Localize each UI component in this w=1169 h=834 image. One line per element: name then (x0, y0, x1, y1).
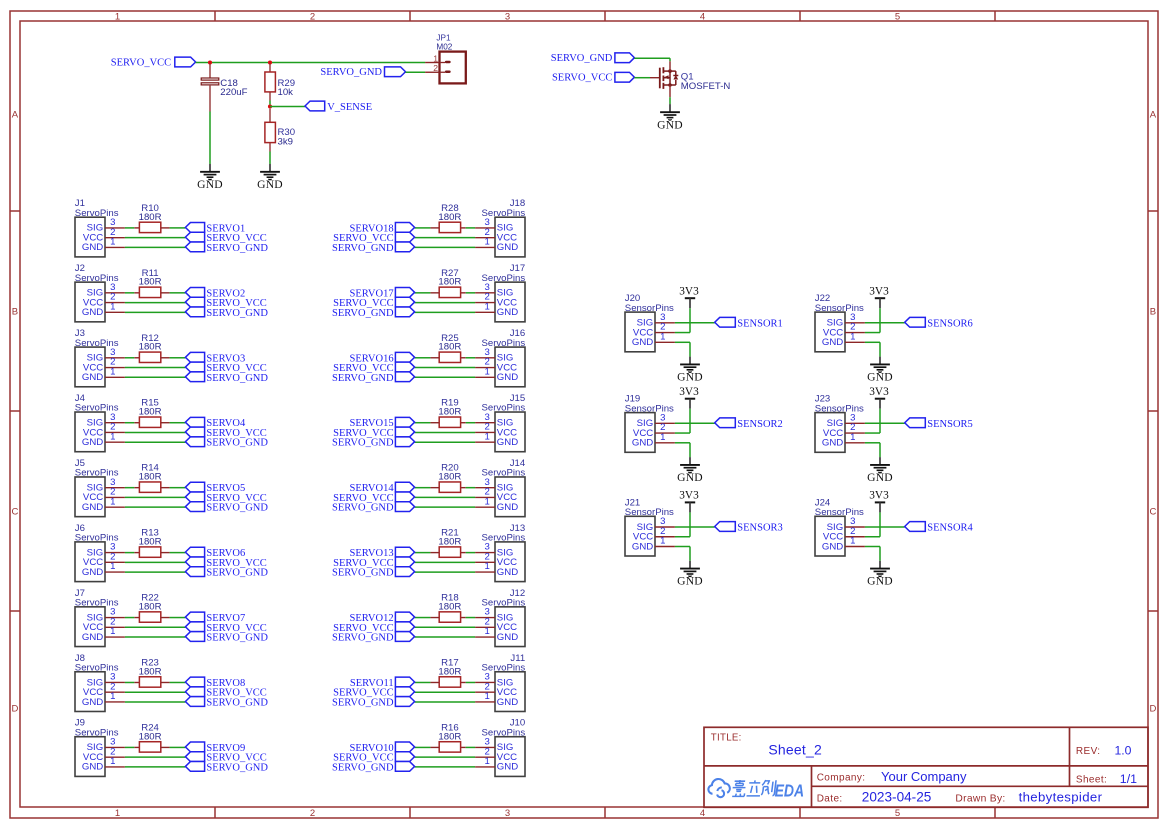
svg-text:1: 1 (110, 237, 115, 248)
pin 2 (105, 367, 125, 369)
net label SERVO_GND (185, 437, 268, 449)
ground (867, 364, 893, 383)
resistor R23 180R (134, 657, 169, 687)
pin 3 (105, 552, 125, 554)
pin 2 (475, 561, 495, 563)
svg-text:1: 1 (110, 496, 115, 507)
wire R16 to SERVO10 flag (415, 746, 431, 748)
wire J15 SIG to R19 (466, 422, 475, 424)
pin 1 (655, 341, 675, 343)
wire J22 SIG to SENSOR6 flag (865, 322, 905, 324)
net label SENSOR1 (715, 317, 783, 329)
resistor R22 180R (134, 593, 169, 623)
connector J17 ServoPins (475, 263, 525, 322)
svg-text:180R: 180R (438, 342, 461, 353)
net label SERVO_GND (185, 632, 268, 644)
connector J7 ServoPins (75, 588, 125, 647)
pin 2 (845, 536, 865, 538)
net label SERVO_VCC (333, 752, 414, 764)
net label V_SENSE (305, 101, 372, 113)
pin 1 (105, 636, 125, 638)
svg-text:GND: GND (632, 337, 653, 348)
svg-text:180R: 180R (139, 666, 162, 677)
wire J7 VCC (125, 626, 185, 628)
wire J8 GND (125, 701, 185, 703)
svg-text:SERVO_GND: SERVO_GND (551, 53, 613, 64)
wire SERVO_VCC bus (196, 62, 426, 64)
svg-text:GND: GND (497, 437, 518, 448)
svg-text:1: 1 (485, 237, 490, 248)
power 3V3 (869, 386, 889, 399)
wire R10 to SERVO1 flag (170, 227, 186, 229)
net label SERVO14 (350, 482, 415, 494)
net label SERVO5 (185, 482, 245, 494)
wire J8 VCC (125, 691, 185, 693)
svg-text:Sheet_2: Sheet_2 (768, 742, 822, 758)
wire J5 GND (125, 506, 185, 508)
svg-text:GND: GND (497, 697, 518, 708)
pin 1 (105, 766, 125, 768)
wire R24 to SERVO9 flag (170, 746, 186, 748)
svg-text:SERVO_GND: SERVO_GND (332, 243, 394, 254)
svg-text:1: 1 (485, 691, 490, 702)
wire R15 to SERVO4 flag (170, 422, 186, 424)
net label SERVO4 (185, 417, 246, 429)
pin 1 (655, 442, 675, 444)
svg-text:180R: 180R (139, 407, 162, 418)
pin 1 (475, 441, 495, 443)
net label SERVO7 (185, 612, 245, 624)
title block (704, 727, 1148, 807)
wire J13 SIG to R21 (466, 552, 475, 554)
svg-text:SERVO_GND: SERVO_GND (206, 308, 268, 319)
pin 3 (475, 681, 495, 683)
wire J17 SIG to R27 (466, 292, 475, 294)
svg-text:SENSOR3: SENSOR3 (737, 523, 783, 534)
svg-text:SERVO_GND: SERVO_GND (206, 373, 268, 384)
svg-text:SENSOR2: SENSOR2 (737, 419, 783, 430)
wire J10 VCC (415, 756, 476, 758)
net label SERVO10 (350, 742, 415, 754)
svg-text:1: 1 (485, 756, 490, 767)
svg-text:MOSFET-N: MOSFET-N (681, 81, 731, 92)
power 3V3 (869, 286, 889, 299)
pin 3 (105, 422, 125, 424)
wire J2 GND (125, 311, 185, 313)
net label SERVO_GND (Q1) (551, 53, 635, 64)
svg-text:4: 4 (700, 11, 705, 22)
connector J4 ServoPins (75, 393, 125, 452)
svg-text:1: 1 (850, 331, 855, 342)
svg-text:GND: GND (677, 471, 703, 484)
connector J12 ServoPins (475, 588, 525, 647)
svg-text:SERVO_GND: SERVO_GND (206, 697, 268, 708)
wire J3 GND (125, 376, 185, 378)
wire R14 to SERVO5 flag (170, 487, 186, 489)
wire C18 to ground (209, 112, 211, 165)
wire J18 VCC (415, 237, 476, 239)
resistor R13 180R (134, 528, 169, 558)
net label SERVO_GND (185, 502, 268, 514)
wire J15 GND (415, 441, 476, 443)
wire R19 to SERVO15 flag (415, 422, 431, 424)
svg-text:SERVO_GND: SERVO_GND (332, 438, 394, 449)
wire J21 GND to ground (675, 547, 690, 569)
wire R25 to SERVO16 flag (415, 357, 431, 359)
svg-text:GND: GND (497, 242, 518, 253)
resistor R20 180R (430, 463, 465, 493)
ground (677, 364, 703, 383)
net label SERVO_GND (to JP1) (320, 67, 405, 78)
wire J3 SIG to R12 (125, 357, 134, 359)
svg-text:180R: 180R (139, 472, 162, 483)
wire J8 SIG to R23 (125, 681, 134, 683)
wire J14 SIG to R20 (466, 487, 475, 489)
net label SENSOR6 (905, 317, 973, 329)
wire 3V3 to J21 VCC (675, 512, 690, 536)
svg-text:GND: GND (82, 567, 103, 578)
resistor R24 180R (134, 722, 169, 752)
power 3V3 (869, 490, 889, 503)
wire J20 GND to ground (675, 342, 690, 364)
svg-text:GND: GND (657, 118, 683, 131)
connector J19 SensorPins (625, 394, 675, 453)
svg-text:SERVO_GND: SERVO_GND (332, 568, 394, 579)
svg-text:10k: 10k (278, 87, 294, 98)
svg-text:Date:: Date: (817, 794, 843, 805)
pin 1 (475, 506, 495, 508)
pin 2 (475, 756, 495, 758)
pin 3 (105, 292, 125, 294)
pin 2 (655, 332, 675, 334)
net label SENSOR4 (905, 522, 974, 534)
svg-text:SERVO_GND: SERVO_GND (320, 67, 382, 78)
svg-text:GND: GND (82, 307, 103, 318)
svg-text:TITLE:: TITLE: (711, 733, 742, 744)
svg-text:1.0: 1.0 (1115, 743, 1132, 757)
svg-text:180R: 180R (438, 472, 461, 483)
pin 3 (475, 292, 495, 294)
svg-text:SERVO_GND: SERVO_GND (206, 243, 268, 254)
svg-text:D: D (1149, 704, 1156, 715)
wire J16 VCC (415, 367, 476, 369)
svg-text:1: 1 (850, 536, 855, 547)
svg-text:SERVO_GND: SERVO_GND (206, 633, 268, 644)
svg-text:180R: 180R (139, 342, 162, 353)
pin 1 (105, 246, 125, 248)
pin 3 (105, 357, 125, 359)
svg-text:Company:: Company: (817, 773, 866, 784)
svg-text:GND: GND (497, 372, 518, 383)
connector J1 ServoPins (75, 198, 125, 257)
resistor R10 180R (134, 203, 169, 233)
wire J19 GND to ground (675, 443, 690, 465)
wire R23 to SERVO8 flag (170, 681, 186, 683)
svg-text:180R: 180R (438, 601, 461, 612)
wire J5 VCC (125, 496, 185, 498)
svg-text:1: 1 (485, 496, 490, 507)
pin 2 (475, 691, 495, 693)
svg-text:180R: 180R (139, 601, 162, 612)
resistor R21 180R (430, 528, 465, 558)
net label SERVO_VCC (185, 492, 266, 504)
wire J17 GND (415, 311, 476, 313)
wire J23 GND to ground (865, 443, 880, 465)
net label SERVO_VCC (333, 557, 414, 569)
wire J15 VCC (415, 431, 476, 433)
svg-text:1: 1 (485, 366, 490, 377)
net label SENSOR2 (715, 418, 783, 430)
connector J20 SensorPins (625, 293, 675, 352)
svg-text:C: C (11, 507, 18, 518)
net label SERVO_VCC (333, 232, 414, 244)
svg-text:3V3: 3V3 (679, 386, 699, 398)
net label SERVO_VCC (185, 622, 266, 634)
svg-text:REV:: REV: (1076, 746, 1101, 757)
pin 2 (845, 432, 865, 434)
pin 3 (845, 526, 865, 528)
ground (657, 112, 683, 131)
svg-text:3V3: 3V3 (869, 286, 889, 298)
svg-text:1: 1 (485, 626, 490, 637)
svg-text:Drawn By:: Drawn By: (955, 793, 1005, 804)
pin 1 (105, 571, 125, 573)
wire J18 SIG to R28 (466, 227, 475, 229)
net label SERVO_VCC (185, 427, 266, 439)
wire J9 GND (125, 766, 185, 768)
net label SERVO_GND (185, 567, 268, 579)
wire J10 GND (415, 766, 476, 768)
connector J8 ServoPins (75, 653, 125, 712)
transistor Q1 MOSFET-N (650, 61, 730, 97)
pin 1 (475, 636, 495, 638)
pin 1 (105, 311, 125, 313)
connector J2 ServoPins (75, 263, 125, 322)
wire J1 SIG to R10 (125, 227, 134, 229)
svg-text:1: 1 (110, 691, 115, 702)
wire J6 SIG to R13 (125, 552, 134, 554)
pin 2 (105, 237, 125, 239)
svg-text:GND: GND (497, 762, 518, 773)
wire 3V3 to J20 VCC (675, 308, 690, 332)
wire J9 SIG to R24 (125, 746, 134, 748)
wire J2 VCC (125, 302, 185, 304)
svg-text:SERVO_VCC: SERVO_VCC (552, 73, 612, 84)
connector J11 ServoPins (475, 653, 525, 712)
ground (677, 569, 703, 588)
wire R29 to V_SENSE node (269, 101, 271, 105)
wire J3 VCC (125, 367, 185, 369)
svg-text:3k9: 3k9 (278, 136, 293, 147)
resistor R18 180R (430, 593, 465, 623)
svg-text:2: 2 (310, 808, 315, 819)
wire J4 VCC (125, 431, 185, 433)
power 3V3 (679, 286, 699, 299)
wire R30 to ground (269, 152, 271, 165)
net label SERVO15 (350, 417, 415, 429)
wire J1 GND (125, 246, 185, 248)
svg-text:180R: 180R (139, 731, 162, 742)
svg-text:1: 1 (433, 53, 438, 63)
net label SERVO_GND (185, 372, 268, 384)
wire J4 SIG to R15 (125, 422, 134, 424)
net label SERVO_VCC (333, 687, 414, 699)
net label SERVO_VCC (333, 427, 414, 439)
svg-text:3V3: 3V3 (869, 386, 889, 398)
wire R13 to SERVO6 flag (170, 552, 186, 554)
pin 2 (105, 626, 125, 628)
pin 3 (655, 422, 675, 424)
wire R17 to SERVO11 flag (415, 681, 431, 683)
svg-text:Your Company: Your Company (881, 769, 967, 784)
wire R12 to SERVO3 flag (170, 357, 186, 359)
net label SERVO_VCC (333, 622, 414, 634)
wire J12 GND (415, 636, 476, 638)
wire R20 to SERVO14 flag (415, 487, 431, 489)
svg-text:180R: 180R (438, 537, 461, 548)
connector J23 SensorPins (815, 394, 865, 453)
net label SERVO_VCC (Q1 gate) (552, 72, 634, 83)
svg-text:180R: 180R (438, 666, 461, 677)
resistor R16 180R (430, 722, 465, 752)
net label SERVO13 (350, 547, 415, 559)
wire J11 SIG to R17 (466, 681, 475, 683)
net label SERVO16 (350, 352, 415, 364)
svg-text:3: 3 (505, 11, 510, 22)
pin 3 (655, 526, 675, 528)
net label SERVO_GND (332, 567, 415, 579)
resistor R28 180R (430, 203, 465, 233)
svg-text:GND: GND (497, 502, 518, 513)
svg-text:SENSOR4: SENSOR4 (927, 523, 973, 534)
svg-text:GND: GND (82, 242, 103, 253)
net label SERVO18 (350, 223, 415, 235)
pin 1 (475, 766, 495, 768)
svg-text:GND: GND (197, 178, 223, 191)
svg-text:1: 1 (850, 432, 855, 443)
pin 3 (475, 227, 495, 229)
svg-text:GND: GND (677, 575, 703, 588)
net label SERVO_VCC (185, 687, 266, 699)
svg-text:JP1: JP1 (436, 33, 451, 42)
svg-text:GND: GND (867, 371, 893, 384)
wire SERVO_VCC to gate (634, 77, 650, 79)
connector J13 ServoPins (475, 523, 525, 582)
pin 2 (105, 561, 125, 563)
pin 1 (425, 62, 439, 64)
wire R21 to SERVO13 flag (415, 552, 431, 554)
wire J16 SIG to R25 (466, 357, 475, 359)
net label SERVO9 (185, 742, 245, 754)
wire J20 SIG to SENSOR1 flag (675, 322, 715, 324)
svg-text:GND: GND (82, 502, 103, 513)
ground (867, 465, 893, 484)
svg-text:B: B (12, 307, 18, 318)
pin 2 (475, 496, 495, 498)
pin 3 (845, 322, 865, 324)
pin 3 (105, 681, 125, 683)
wire J11 GND (415, 701, 476, 703)
svg-text:3V3: 3V3 (679, 490, 699, 502)
svg-text:1: 1 (110, 431, 115, 442)
pin 3 (845, 422, 865, 424)
wire J22 GND to ground (865, 342, 880, 364)
wire J11 VCC (415, 691, 476, 693)
pin 2 (845, 332, 865, 334)
resistor R25 180R (430, 333, 465, 363)
capacitor C18 (201, 64, 247, 112)
svg-text:5: 5 (895, 808, 900, 819)
net label SERVO_GND (332, 437, 415, 449)
pin 1 (475, 246, 495, 248)
connector J3 ServoPins (75, 328, 125, 387)
svg-text:SERVO_GND: SERVO_GND (332, 762, 394, 773)
svg-text:V_SENSE: V_SENSE (327, 102, 372, 113)
connector JP1 M02 (425, 33, 466, 83)
net label SENSOR3 (715, 522, 783, 534)
svg-text:180R: 180R (139, 537, 162, 548)
connector J6 ServoPins (75, 523, 125, 582)
svg-text:1: 1 (115, 11, 120, 22)
pin 3 (475, 422, 495, 424)
net label SERVO_VCC (185, 752, 266, 764)
pin 1 (105, 701, 125, 703)
net label SERVO_VCC (185, 362, 266, 374)
svg-text:GND: GND (497, 307, 518, 318)
pin 2 (105, 691, 125, 693)
pin 2 (475, 626, 495, 628)
pin 1 (475, 376, 495, 378)
connector J16 ServoPins (475, 328, 525, 387)
node junction at C18 (208, 60, 212, 64)
wire J19 SIG to SENSOR2 flag (675, 422, 715, 424)
svg-text:GND: GND (82, 372, 103, 383)
connector J15 ServoPins (475, 393, 525, 452)
resistor R17 180R (430, 657, 465, 687)
svg-text:SERVO_GND: SERVO_GND (332, 697, 394, 708)
resistor R27 180R (430, 268, 465, 298)
wire J14 GND (415, 506, 476, 508)
pin 1 (105, 506, 125, 508)
svg-text:2023-04-25: 2023-04-25 (862, 790, 932, 805)
wire J6 GND (125, 571, 185, 573)
svg-text:1: 1 (115, 808, 120, 819)
svg-text:B: B (1150, 307, 1156, 318)
wire to V_SENSE flag (270, 106, 305, 108)
svg-text:GND: GND (497, 567, 518, 578)
pin 3 (655, 322, 675, 324)
net label SERVO_GND (185, 242, 268, 254)
svg-text:GND: GND (677, 371, 703, 384)
svg-text:3V3: 3V3 (679, 286, 699, 298)
svg-text:SENSOR6: SENSOR6 (927, 318, 973, 329)
svg-text:C: C (1149, 507, 1156, 518)
connector J18 ServoPins (475, 198, 525, 257)
pin 1 (105, 441, 125, 443)
wire J24 GND to ground (865, 547, 880, 569)
resistor R19 180R (430, 398, 465, 428)
ground (257, 172, 283, 191)
svg-text:SERVO_GND: SERVO_GND (206, 762, 268, 773)
wire J12 SIG to R18 (466, 617, 475, 619)
net label SERVO_GND (332, 502, 415, 514)
net label SERVO_VCC (185, 557, 266, 569)
net label SERVO17 (350, 287, 415, 299)
connector J10 ServoPins (475, 718, 525, 777)
wire R18 to SERVO12 flag (415, 617, 431, 619)
svg-text:1: 1 (110, 626, 115, 637)
svg-text:180R: 180R (438, 277, 461, 288)
